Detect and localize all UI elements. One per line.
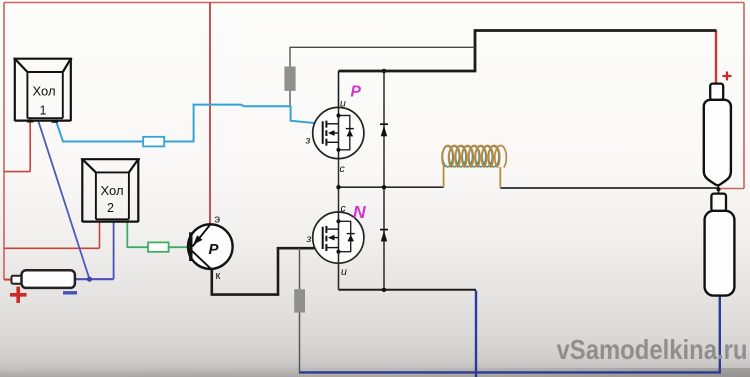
svg-text:з: з <box>306 233 312 245</box>
label plus of battery stack <box>723 72 732 81</box>
svg-text:vSamodelkina.ru: vSamodelkina.ru <box>557 334 748 365</box>
svg-text:э: э <box>215 214 221 226</box>
wire cyan Hall1 to P gate (right part) <box>164 105 322 142</box>
svg-text:P: P <box>351 84 362 101</box>
wire red branch to Hall 1 <box>4 119 30 172</box>
node junction mid rail / diode chain <box>382 185 386 189</box>
wire diode chain vertical <box>383 71 385 290</box>
wire red battery plus feed <box>715 31 717 85</box>
wire blue Hall2 minus vertical <box>113 222 115 280</box>
resistor R3 cyan gate series <box>143 137 164 147</box>
svg-text:P: P <box>209 241 220 258</box>
op N-MOSFET U2 <box>313 212 364 263</box>
wire red V+ right border rail <box>743 3 745 189</box>
wire navy battery minus rail <box>299 291 720 377</box>
wire black bottom rail <box>339 289 477 291</box>
wire mid rail to coil <box>339 186 444 188</box>
node junction battery midpoint <box>716 187 720 191</box>
wire green resistor to transistor base <box>169 246 189 248</box>
wire red feed to transistor emitter <box>209 3 211 225</box>
battery BT2 horizontal cell (left bottom) <box>12 270 75 288</box>
battery B2 lower cell <box>705 189 735 295</box>
node blue junction <box>87 277 92 282</box>
svg-text:и: и <box>340 98 346 110</box>
svg-text:1: 1 <box>40 104 47 118</box>
Hall sensor block Хол 2 <box>81 159 140 222</box>
wire blue battery minus link <box>75 278 114 280</box>
svg-text:2: 2 <box>107 201 114 215</box>
resistor R1 gate pull-up (grey) <box>284 67 295 91</box>
wire red V+ left border rail <box>3 3 5 280</box>
node junction bottom rail / diode chain <box>382 288 386 292</box>
label minus of left battery <box>63 291 77 294</box>
svg-text:с: с <box>341 203 347 215</box>
node junction mid rail / MOSFET branch <box>336 185 340 189</box>
wire red branch to Hall 2 <box>4 222 100 249</box>
wire P-MOSFET source to rail <box>338 71 340 108</box>
svg-text:з: з <box>305 135 311 147</box>
wire red feed to battery plus <box>4 279 12 281</box>
wire cyan Hall1 to P gate (left part) <box>56 120 144 142</box>
svg-text:к: к <box>216 270 221 282</box>
inductor L1 coil <box>442 145 506 188</box>
wire thin gate pull-up to rail <box>290 47 475 66</box>
wire red V+ top border rail <box>4 2 744 4</box>
transistor Q1 PNP <box>188 224 233 269</box>
wire grey branch gate to pulldown resistor <box>299 248 301 289</box>
svg-text:Хол: Хол <box>100 183 123 198</box>
node junction top rail / diode chain <box>382 69 387 74</box>
wire transistor collector to N gate <box>212 248 322 294</box>
battery B1 upper cell <box>704 84 731 190</box>
wire green Hall2 to base resistor <box>127 222 148 248</box>
wire black top power rail <box>339 31 717 72</box>
Hall sensor block Хол 1 <box>13 59 72 121</box>
wire red link to battery midpoint <box>719 188 744 190</box>
label plus of left battery <box>10 287 27 303</box>
svg-text:Хол: Хол <box>32 84 55 99</box>
svg-text:с: с <box>340 163 346 175</box>
op P-MOSFET U1 <box>313 107 364 158</box>
wire N-MOSFET source down <box>338 263 340 289</box>
wire resistor R2 to minus rail <box>299 313 301 372</box>
wire blue Hall1 minus diagonal <box>38 120 90 279</box>
wire coil to battery midpoint <box>500 187 718 189</box>
resistor R4 green base series <box>148 242 169 251</box>
diode D2 lower freewheel <box>380 230 388 242</box>
diode D1 upper freewheel <box>380 124 388 136</box>
svg-text:N: N <box>353 202 366 222</box>
wire mid node vertical between MOSFETs <box>338 159 340 212</box>
svg-text:и: и <box>341 266 347 278</box>
resistor R2 gate pulldown (grey) <box>294 289 305 312</box>
wire resistor R1 bottom lead to gate net <box>289 91 291 107</box>
